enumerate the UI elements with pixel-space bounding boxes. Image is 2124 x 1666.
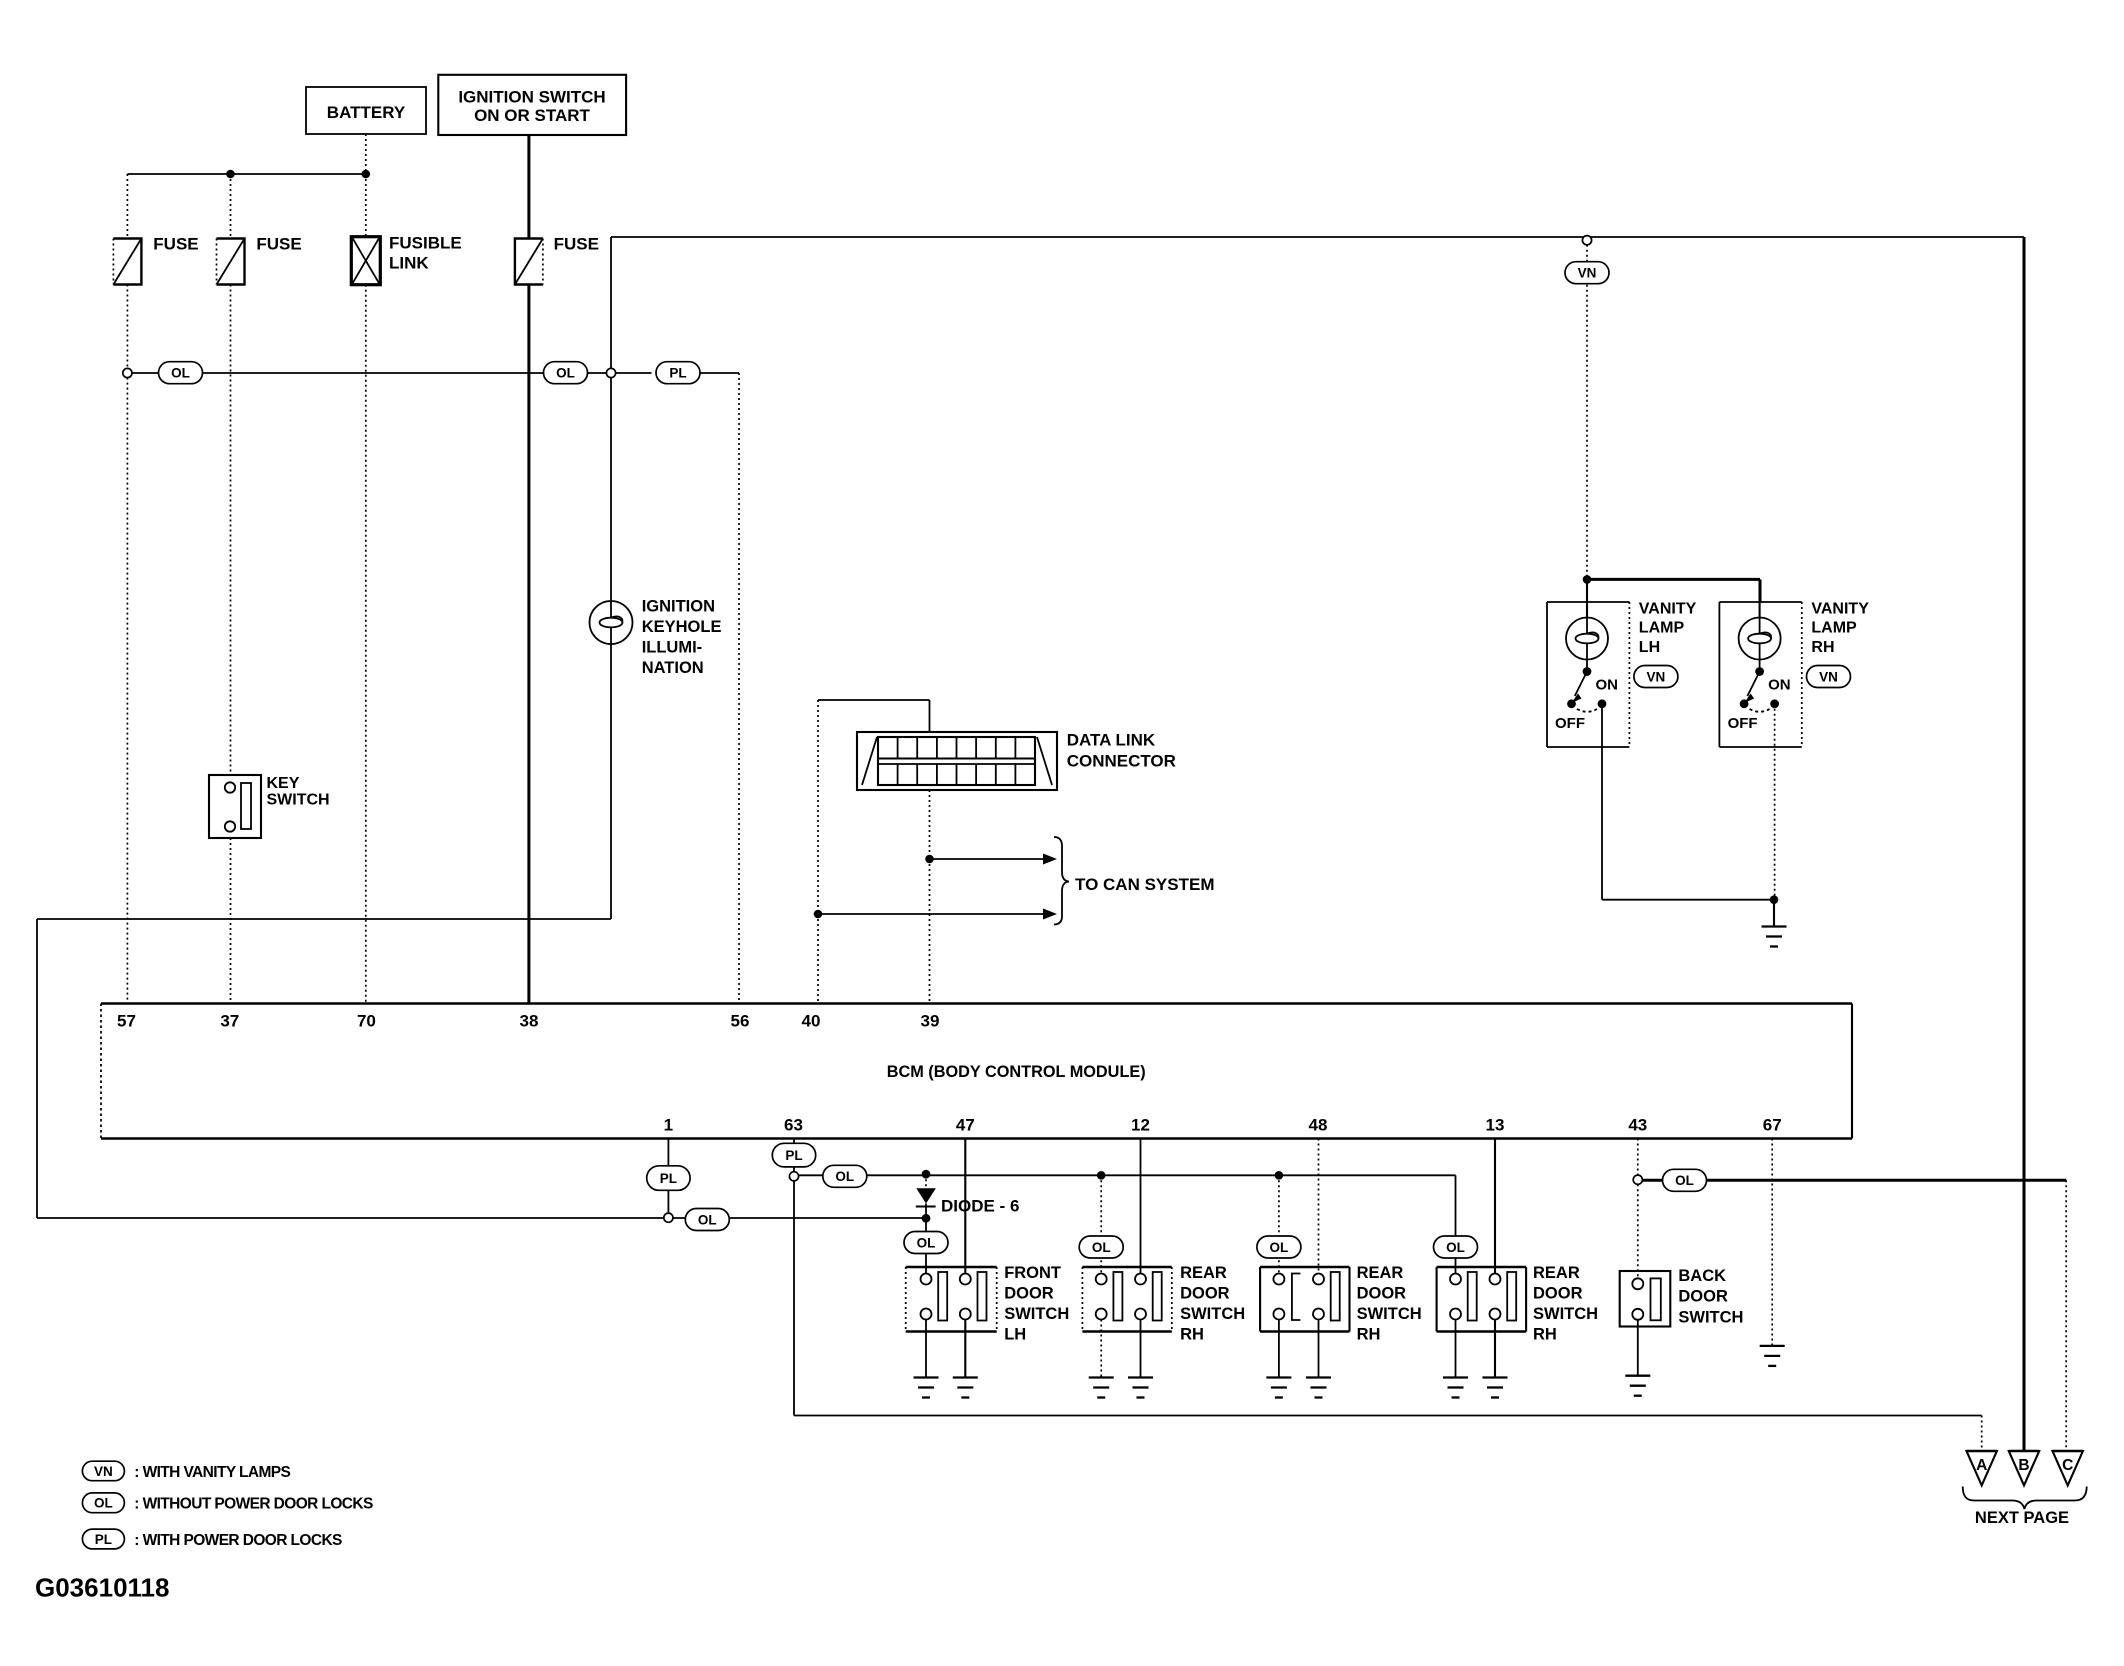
svg-text:C: C xyxy=(2062,1457,2073,1474)
svg-text:KEYHOLE: KEYHOLE xyxy=(642,618,722,636)
svg-text:47: 47 xyxy=(956,1116,975,1135)
svg-text:LAMP: LAMP xyxy=(1811,620,1857,637)
svg-text:CONNECTOR: CONNECTOR xyxy=(1067,752,1176,771)
svg-text:DIODE - 6: DIODE - 6 xyxy=(941,1196,1019,1215)
svg-text:OFF: OFF xyxy=(1555,715,1585,732)
svg-text:FUSE: FUSE xyxy=(153,235,198,254)
svg-text:FUSE: FUSE xyxy=(554,235,599,254)
svg-text:BACK: BACK xyxy=(1678,1267,1726,1285)
svg-text:DOOR: DOOR xyxy=(1678,1288,1728,1306)
svg-text:OL: OL xyxy=(171,366,190,381)
svg-text:OL: OL xyxy=(94,1496,113,1511)
svg-text:38: 38 xyxy=(520,1012,539,1031)
svg-text:DOOR: DOOR xyxy=(1533,1285,1583,1303)
svg-text:OL: OL xyxy=(1675,1173,1694,1188)
svg-text:OL: OL xyxy=(556,366,575,381)
svg-text:ON: ON xyxy=(1596,677,1619,694)
svg-text:VN: VN xyxy=(1647,669,1666,684)
svg-text:ON OR START: ON OR START xyxy=(474,106,590,125)
svg-text:RH: RH xyxy=(1811,639,1834,656)
svg-text:OL: OL xyxy=(1270,1240,1289,1255)
svg-text:RH: RH xyxy=(1357,1326,1381,1344)
svg-text:IGNITION: IGNITION xyxy=(642,597,715,615)
svg-text:PL: PL xyxy=(660,1171,677,1186)
svg-text:REAR: REAR xyxy=(1180,1264,1227,1282)
svg-text:LAMP: LAMP xyxy=(1639,620,1685,637)
svg-text:SWITCH: SWITCH xyxy=(1004,1305,1069,1323)
svg-text:IGNITION SWITCH: IGNITION SWITCH xyxy=(458,88,605,107)
svg-text:VANITY: VANITY xyxy=(1811,600,1869,617)
svg-text:39: 39 xyxy=(921,1012,940,1031)
svg-text:LH: LH xyxy=(1004,1326,1026,1344)
svg-text:NEXT PAGE: NEXT PAGE xyxy=(1975,1509,2069,1527)
svg-text:67: 67 xyxy=(1763,1116,1782,1135)
svg-text:LH: LH xyxy=(1639,639,1660,656)
svg-text:NATION: NATION xyxy=(642,659,704,677)
svg-text:FUSIBLE: FUSIBLE xyxy=(389,234,462,253)
svg-text:40: 40 xyxy=(802,1012,821,1031)
svg-text:: WITH POWER DOOR LOCKS: : WITH POWER DOOR LOCKS xyxy=(134,1532,342,1549)
svg-text:12: 12 xyxy=(1131,1116,1150,1135)
svg-text:G03610118: G03610118 xyxy=(35,1573,169,1603)
svg-text:43: 43 xyxy=(1628,1116,1647,1135)
svg-text:37: 37 xyxy=(220,1012,239,1031)
svg-text:BCM (BODY CONTROL MODULE): BCM (BODY CONTROL MODULE) xyxy=(887,1063,1146,1081)
svg-text:A: A xyxy=(1976,1457,1987,1474)
svg-text:SWITCH: SWITCH xyxy=(1533,1305,1598,1323)
svg-text:REAR: REAR xyxy=(1357,1264,1404,1282)
svg-text:70: 70 xyxy=(357,1012,376,1031)
svg-text:OL: OL xyxy=(917,1235,936,1250)
svg-text:OL: OL xyxy=(1092,1240,1111,1255)
svg-text:OL: OL xyxy=(835,1169,854,1184)
svg-text:DOOR: DOOR xyxy=(1004,1285,1054,1303)
svg-text:57: 57 xyxy=(117,1012,136,1031)
svg-text:REAR: REAR xyxy=(1533,1264,1580,1282)
svg-text:FUSE: FUSE xyxy=(256,235,301,254)
svg-text:FRONT: FRONT xyxy=(1004,1264,1061,1282)
svg-text:OL: OL xyxy=(698,1212,717,1227)
svg-text:: WITHOUT POWER DOOR LOCKS: : WITHOUT POWER DOOR LOCKS xyxy=(134,1496,373,1513)
svg-text:RH: RH xyxy=(1180,1326,1204,1344)
svg-text:VANITY: VANITY xyxy=(1639,600,1697,617)
svg-text:1: 1 xyxy=(664,1116,673,1135)
svg-text:KEY: KEY xyxy=(267,775,300,792)
svg-text:VN: VN xyxy=(1819,669,1838,684)
svg-text:B: B xyxy=(2018,1457,2029,1474)
svg-text:SWITCH: SWITCH xyxy=(1678,1309,1743,1327)
svg-text:BATTERY: BATTERY xyxy=(327,103,406,122)
svg-text:PL: PL xyxy=(785,1148,802,1163)
svg-text:LINK: LINK xyxy=(389,253,429,272)
svg-text:VN: VN xyxy=(1578,266,1597,281)
svg-text:SWITCH: SWITCH xyxy=(1180,1305,1245,1323)
svg-text:DOOR: DOOR xyxy=(1357,1285,1407,1303)
svg-text:ON: ON xyxy=(1768,677,1791,694)
svg-text:63: 63 xyxy=(784,1116,803,1135)
svg-text:SWITCH: SWITCH xyxy=(1357,1305,1422,1323)
svg-text:DOOR: DOOR xyxy=(1180,1285,1230,1303)
svg-text:SWITCH: SWITCH xyxy=(267,792,330,809)
svg-text:PL: PL xyxy=(95,1532,112,1547)
svg-text:48: 48 xyxy=(1309,1116,1328,1135)
svg-text:OL: OL xyxy=(1446,1240,1465,1255)
svg-text:: WITH VANITY LAMPS: : WITH VANITY LAMPS xyxy=(134,1464,290,1481)
svg-text:13: 13 xyxy=(1486,1116,1505,1135)
svg-text:OFF: OFF xyxy=(1728,715,1758,732)
svg-text:VN: VN xyxy=(94,1464,113,1479)
svg-text:56: 56 xyxy=(731,1012,750,1031)
svg-text:ILLUMI-: ILLUMI- xyxy=(642,639,702,657)
svg-text:DATA LINK: DATA LINK xyxy=(1067,731,1156,750)
svg-text:PL: PL xyxy=(669,366,686,381)
svg-text:TO CAN SYSTEM: TO CAN SYSTEM xyxy=(1075,875,1214,894)
svg-text:RH: RH xyxy=(1533,1326,1557,1344)
